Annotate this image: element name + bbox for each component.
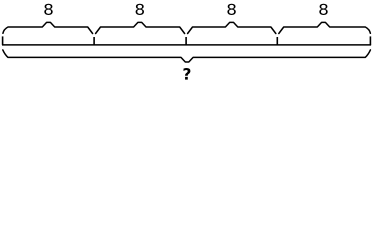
under-brace total <box>3 50 371 62</box>
label ? (total) <box>184 68 191 80</box>
label 8 (part 3) <box>227 4 235 15</box>
over-brace part 2 <box>96 22 185 33</box>
label 8 (part 4) <box>319 4 327 15</box>
tick left edge <box>2 36 4 45</box>
bar baseline <box>2 44 371 46</box>
tape diagram: 4 equal parts of 8, total unknown <box>0 0 373 83</box>
over-brace part 4 <box>279 22 371 33</box>
label 8 (part 1) <box>44 4 52 15</box>
over-brace part 3 <box>188 22 276 33</box>
tick divider 2 <box>185 37 187 45</box>
over-brace part 1 <box>3 22 93 33</box>
tick divider 3 <box>276 37 278 45</box>
label 8 (part 2) <box>136 4 144 15</box>
tick divider 1 <box>93 37 95 45</box>
tick right edge <box>369 36 371 45</box>
